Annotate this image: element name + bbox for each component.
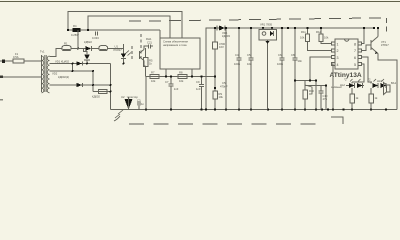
svg-text:КД002(2): КД002(2) (58, 75, 69, 79)
svg-text:3: 3 (337, 56, 339, 60)
svg-text:C5: C5 (247, 53, 251, 57)
svg-text:1nF: 1nF (196, 87, 201, 91)
svg-text:зелёный: зелёный (331, 85, 342, 89)
svg-text:U1: U1 (115, 45, 119, 49)
svg-text:4: 4 (337, 63, 339, 67)
svg-text:VD1 КЦ402: VD1 КЦ402 (55, 59, 70, 63)
svg-text:BA1: BA1 (391, 81, 397, 85)
svg-text:1nF: 1nF (174, 87, 179, 91)
svg-text:1n: 1n (141, 102, 144, 106)
svg-text:C4: C4 (235, 53, 239, 57)
svg-text:C21: C21 (147, 41, 152, 45)
svg-text:КТ817: КТ817 (381, 43, 389, 47)
svg-text:10k: 10k (219, 95, 224, 99)
svg-text:0.5A: 0.5A (13, 55, 19, 59)
svg-text:100n: 100n (234, 62, 240, 66)
svg-text:КД002: КД002 (92, 95, 100, 99)
svg-text:VD2: VD2 (52, 72, 58, 76)
svg-text:C5: C5 (222, 81, 226, 85)
svg-text:R4: R4 (73, 24, 77, 28)
svg-text:47n: 47n (323, 97, 328, 101)
svg-text:1: 1 (337, 42, 339, 46)
svg-text:напряжения и тока: напряжения и тока (163, 44, 187, 47)
svg-text:C7: C7 (165, 80, 169, 84)
svg-text:6: 6 (354, 56, 356, 60)
svg-text:10k: 10k (151, 79, 156, 83)
svg-text:Rst1: Rst1 (146, 37, 152, 41)
svg-text:R8: R8 (179, 71, 183, 75)
svg-text:10k: 10k (300, 36, 305, 40)
svg-text:C9: C9 (196, 80, 200, 84)
svg-text:10k: 10k (179, 79, 184, 83)
svg-text:10k: 10k (324, 36, 329, 40)
svg-text:R11: R11 (301, 30, 306, 34)
svg-text:0.033: 0.033 (92, 36, 99, 40)
svg-text:C6: C6 (278, 53, 282, 57)
svg-text:16V: 16V (219, 45, 224, 49)
svg-text:C8: C8 (291, 53, 295, 57)
svg-text:8: 8 (354, 42, 356, 46)
svg-text:10n: 10n (298, 59, 303, 63)
svg-text:КД522: КД522 (84, 40, 92, 44)
svg-text:Tv1: Tv1 (40, 50, 45, 54)
svg-text:5: 5 (354, 63, 356, 67)
svg-text:PC817: PC817 (114, 48, 123, 52)
svg-text:R12: R12 (316, 30, 321, 34)
svg-text:100n: 100n (277, 62, 283, 66)
svg-text:7: 7 (354, 49, 356, 53)
svg-text:U2: U2 (121, 95, 125, 99)
svg-text:2: 2 (337, 49, 339, 53)
svg-text:R1: R1 (64, 42, 68, 46)
svg-text:10n: 10n (247, 62, 252, 66)
svg-text:R10: R10 (309, 89, 314, 93)
svg-text:R7: R7 (151, 71, 155, 75)
svg-text:HL3: HL3 (377, 79, 382, 83)
svg-text:470nF: 470nF (220, 85, 228, 89)
svg-text:VR1 7805: VR1 7805 (260, 23, 272, 27)
